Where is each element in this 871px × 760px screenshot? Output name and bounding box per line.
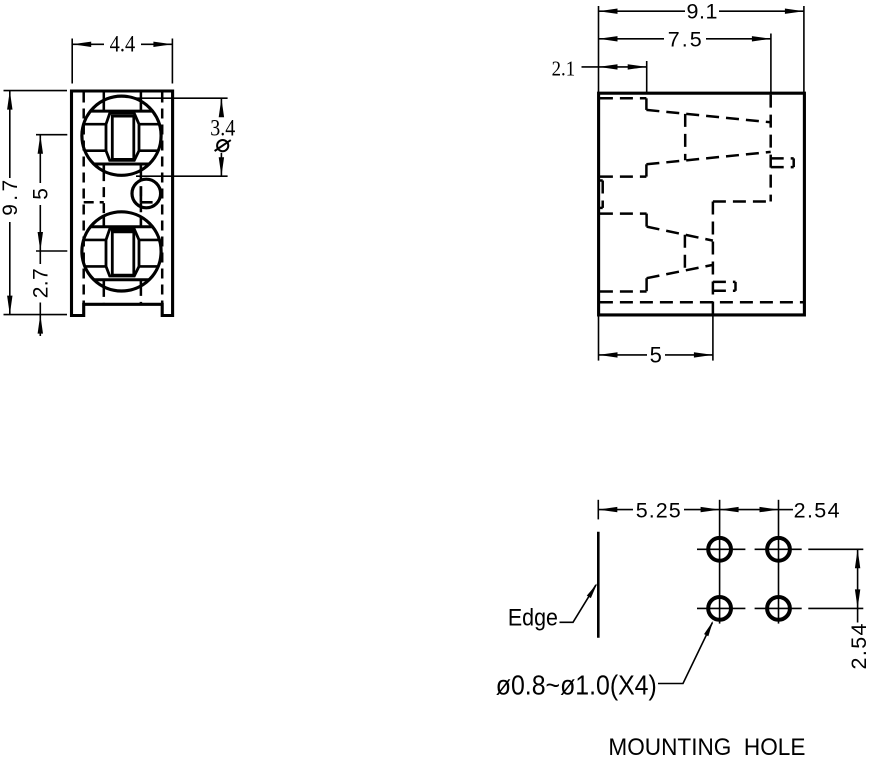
- svg-text:3.4: 3.4: [210, 115, 235, 140]
- svg-text:2.1: 2.1: [552, 57, 576, 81]
- svg-text:5.25: 5.25: [636, 498, 681, 522]
- svg-text:9.1: 9.1: [687, 0, 718, 24]
- svg-text:2.54: 2.54: [794, 498, 840, 522]
- svg-text:ø0.8~ø1.0(X4): ø0.8~ø1.0(X4): [496, 669, 657, 700]
- svg-text:MOUNTING HOLE: MOUNTING HOLE: [608, 734, 805, 760]
- svg-text:5: 5: [650, 342, 662, 367]
- svg-text:2.54: 2.54: [847, 623, 871, 669]
- svg-text:7.5: 7.5: [668, 27, 702, 51]
- svg-text:4.4: 4.4: [110, 32, 136, 57]
- svg-text:2.7: 2.7: [30, 268, 53, 298]
- svg-text:9.7: 9.7: [0, 180, 22, 216]
- svg-text:Edge: Edge: [508, 604, 558, 631]
- svg-text:5: 5: [30, 188, 53, 200]
